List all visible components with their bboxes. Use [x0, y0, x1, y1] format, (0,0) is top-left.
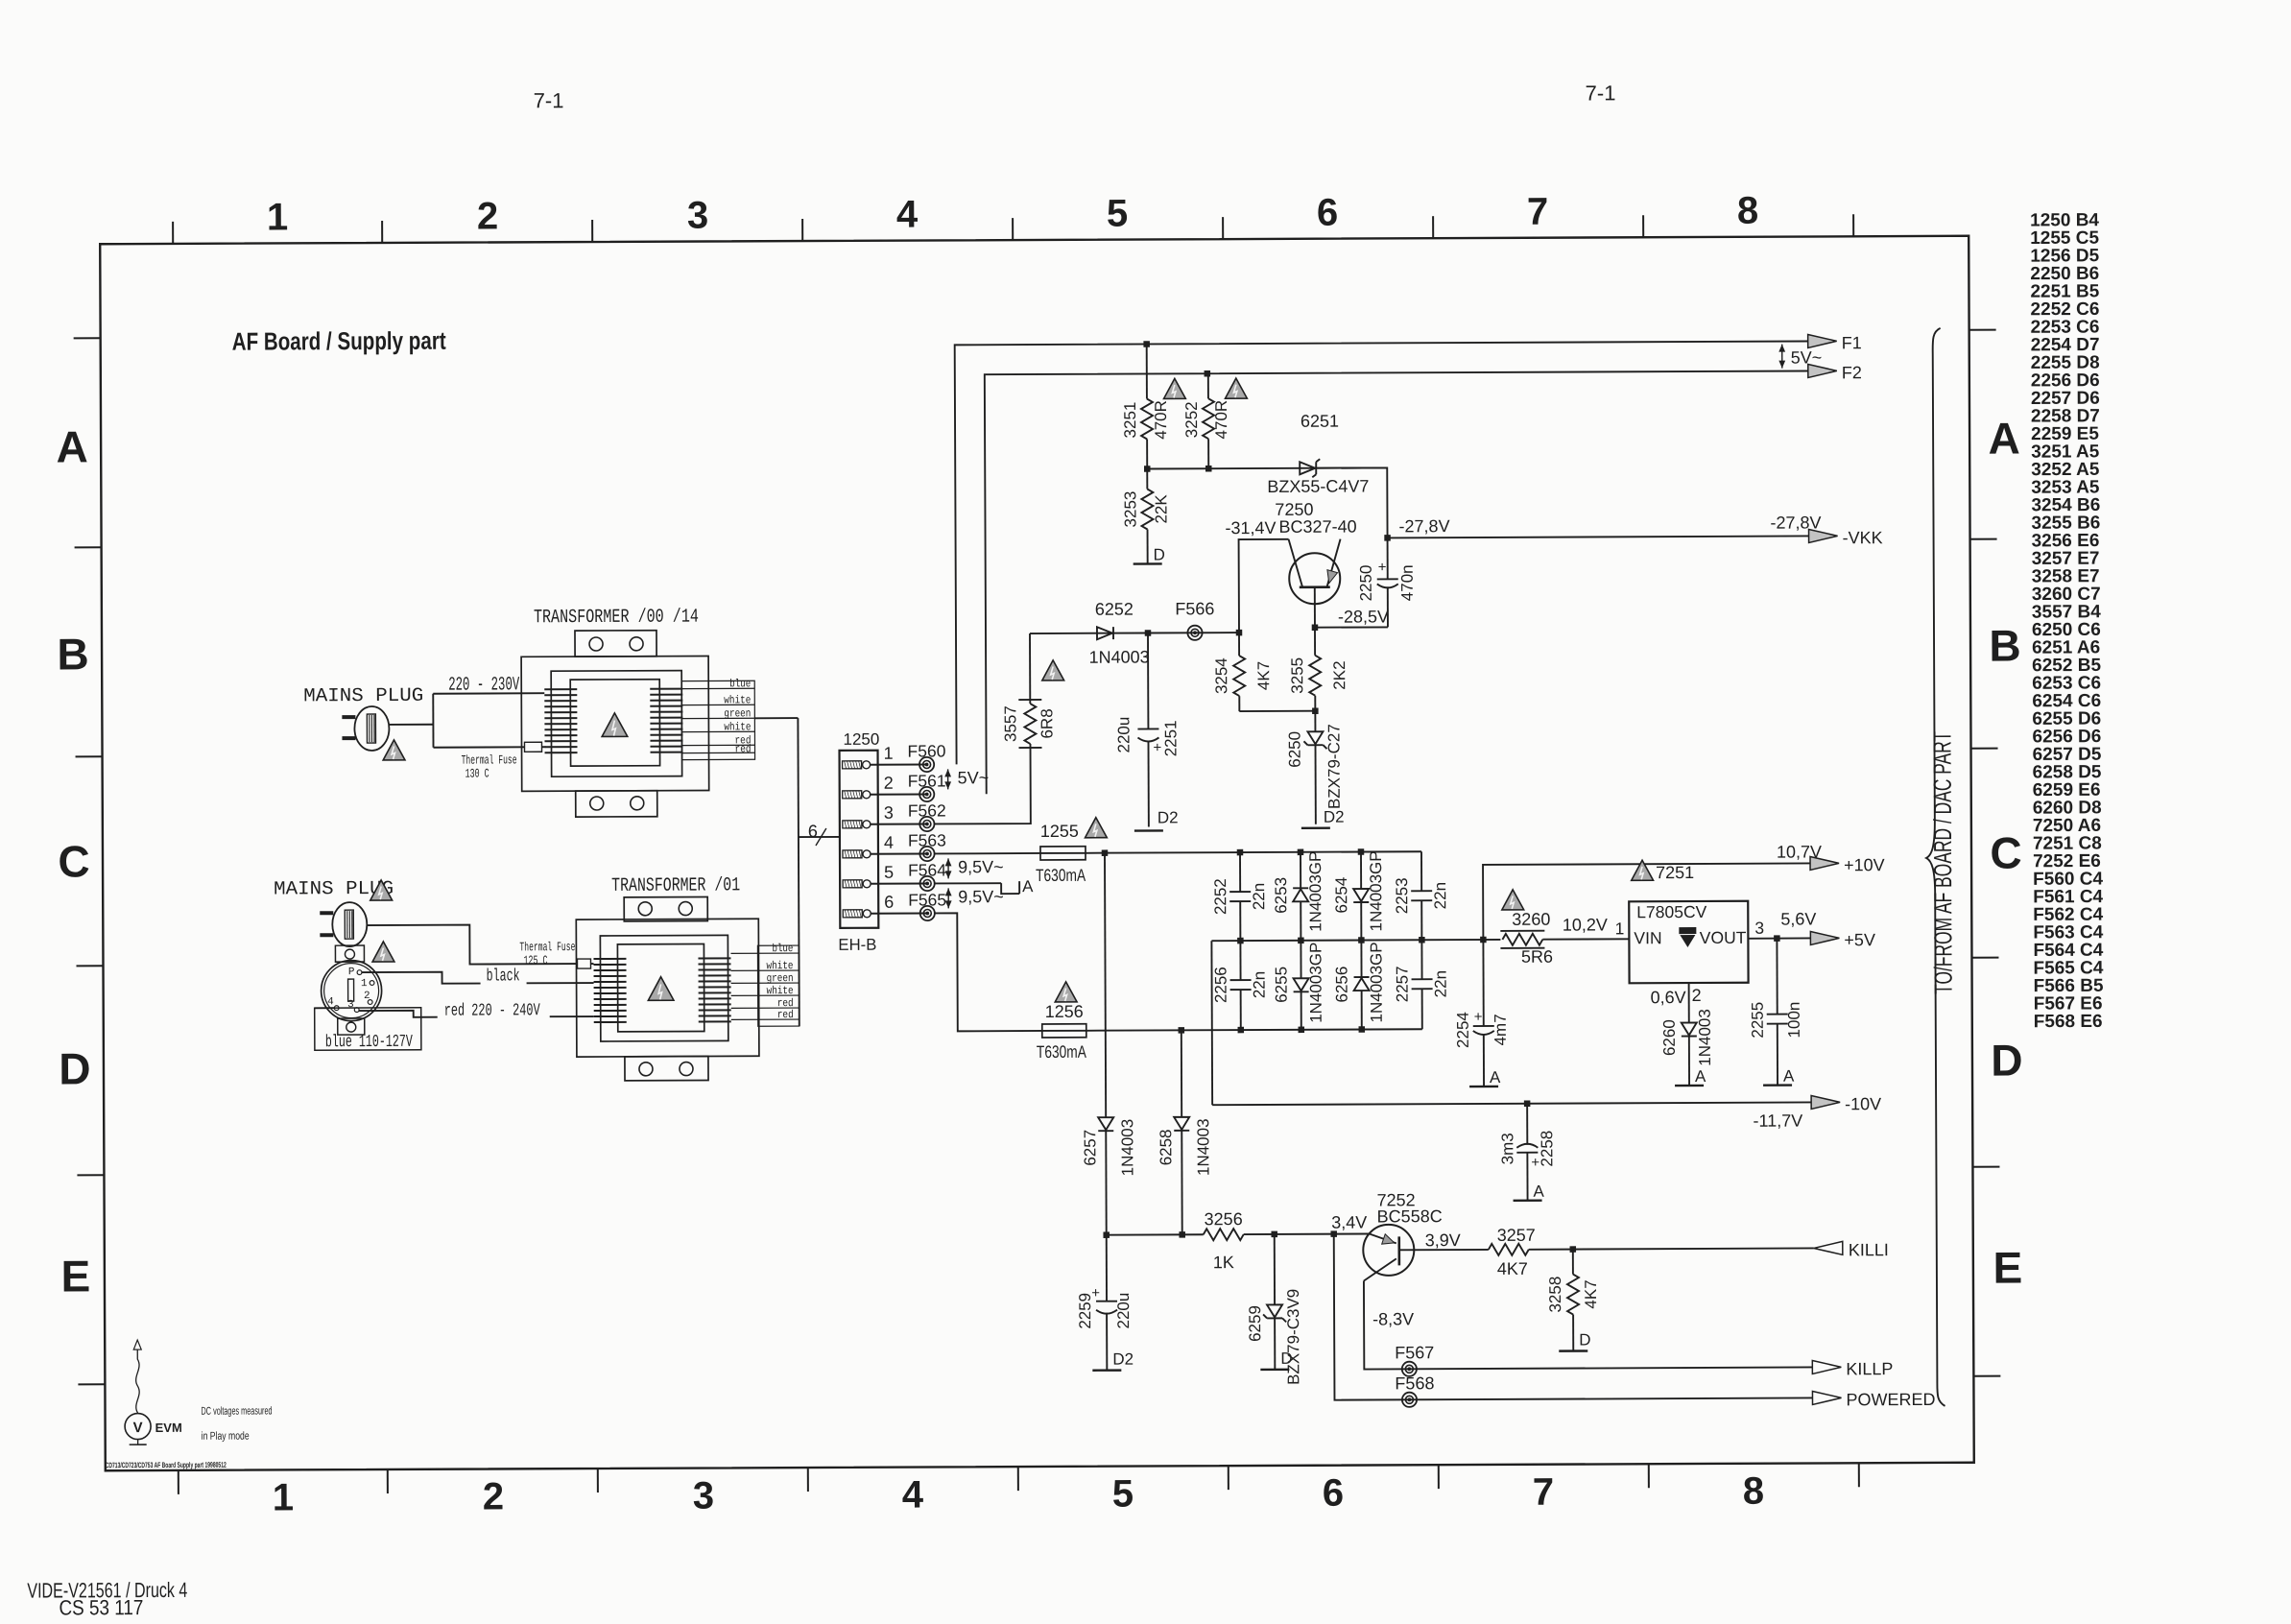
diode 6258 1N4003 — [1181, 1030, 1182, 1116]
left grid letters A-E — [56, 421, 91, 1301]
bottom grid ticks — [179, 1463, 1859, 1494]
svg-text:E: E — [1993, 1243, 2022, 1293]
svg-text:220 - 230V: 220 - 230V — [448, 674, 519, 696]
svg-text:POWERED: POWERED — [1846, 1390, 1935, 1409]
svg-text:3557: 3557 — [1001, 705, 1019, 742]
connector pin 2 — [843, 791, 862, 799]
svg-text:9,5V~: 9,5V~ — [958, 857, 1004, 876]
svg-text:6250: 6250 — [1285, 731, 1303, 768]
svg-text:F560: F560 — [907, 741, 945, 760]
svg-text:-27,8V: -27,8V — [1770, 513, 1821, 532]
connector pin 6 — [843, 910, 862, 918]
svg-text:2: 2 — [1692, 986, 1702, 1005]
diode 6260 1N4003 — [1688, 1013, 1690, 1022]
svg-text:2: 2 — [364, 991, 370, 1002]
-VKK rail wire -27,8V — [1388, 536, 1809, 537]
svg-text:3: 3 — [687, 194, 708, 236]
svg-text:1N4003GP: 1N4003GP — [1306, 851, 1324, 932]
svg-text:6258: 6258 — [1157, 1129, 1175, 1165]
svg-text:2258: 2258 — [1538, 1131, 1556, 1167]
svg-text:A: A — [1533, 1182, 1544, 1201]
EVM voltmeter symbol — [136, 1349, 140, 1413]
mains plug 1 wiring loop — [389, 724, 433, 726]
resistor 3251 470R — [1146, 344, 1148, 398]
warning triangle at 3557 — [1042, 660, 1064, 681]
transformer /01 primary winding hatch — [593, 959, 626, 1022]
svg-text:L7805CV: L7805CV — [1636, 902, 1706, 921]
svg-text:5: 5 — [884, 863, 894, 882]
9,5V~ span between pins 5-6 — [947, 888, 949, 908]
transformer /00 bottom mounting tab — [576, 791, 657, 817]
svg-text:22n: 22n — [1251, 971, 1269, 998]
svg-text:-VKK: -VKK — [1843, 528, 1883, 547]
thermal fuse 130C symbol — [524, 742, 541, 752]
svg-text:3252: 3252 — [1182, 401, 1201, 438]
svg-text:7: 7 — [1533, 1471, 1554, 1514]
secondary wires blue/white/green/white/red/red — [681, 687, 754, 689]
svg-text:220u: 220u — [1114, 717, 1133, 753]
ground D2 below 2251 — [1134, 829, 1163, 832]
svg-text:F565: F565 — [908, 890, 946, 909]
svg-text:22n: 22n — [1250, 883, 1268, 910]
svg-text:4K7: 4K7 — [1582, 1279, 1600, 1308]
svg-text:6251: 6251 — [1301, 412, 1339, 431]
wire selector pin 3 red 220 - 240V — [359, 1011, 438, 1017]
component grid reference list — [2030, 210, 2104, 1032]
svg-text:2: 2 — [477, 195, 498, 237]
transformer /00 primary winding hatch — [544, 689, 577, 752]
svg-text:AF Board / Supply part: AF Board / Supply part — [232, 326, 446, 356]
fuse 1255 T630mA — [1040, 847, 1086, 860]
transformer /01 bottom mounting tab — [625, 1056, 708, 1080]
warning triangle in transformer /01 — [648, 977, 674, 1001]
test point F561 — [919, 787, 934, 801]
svg-text:6R8: 6R8 — [1038, 708, 1056, 738]
transformer /00 secondary wire label box — [681, 681, 754, 759]
svg-text:white: white — [766, 960, 793, 972]
connector 1250 EH-B body — [840, 751, 879, 928]
ground A below 2258 — [1514, 1200, 1542, 1203]
svg-text:1: 1 — [361, 978, 368, 990]
test point F564 — [919, 876, 934, 891]
transformer /01 core — [617, 944, 704, 1032]
svg-text:1N4003GP: 1N4003GP — [1306, 943, 1324, 1023]
svg-text:3254: 3254 — [1212, 657, 1230, 694]
svg-text:F1: F1 — [1842, 333, 1862, 352]
svg-text:125 C: 125 C — [523, 953, 547, 967]
svg-text:2257: 2257 — [1394, 966, 1412, 1002]
svg-text:6253: 6253 — [1272, 877, 1290, 914]
test point F565 — [920, 906, 935, 920]
svg-text:-31,4V: -31,4V — [1225, 518, 1276, 537]
capacitor 2251 220u — [1147, 633, 1149, 728]
test point F568 — [1402, 1393, 1417, 1407]
diode 6256 1N4003GP — [1360, 941, 1362, 977]
svg-text:BC327-40: BC327-40 — [1278, 517, 1356, 537]
AC rail wire from fuse 1256 — [1086, 1029, 1422, 1031]
transformer /01 secondary winding hatch — [698, 958, 730, 1021]
svg-text:D2: D2 — [1112, 1350, 1134, 1369]
svg-text:1: 1 — [267, 196, 288, 238]
svg-text:DC voltages measured: DC voltages measured — [201, 1405, 272, 1417]
wire 3256 to 7252 base — [1244, 1232, 1370, 1235]
connector pin 1 — [843, 761, 862, 769]
svg-text:1N4003GP: 1N4003GP — [1367, 850, 1385, 931]
svg-text:MAINS PLUG: MAINS PLUG — [303, 685, 423, 708]
AC rail wire from fuse 1255 — [1086, 851, 1421, 853]
wire DC minus drop to -10V rail — [1210, 941, 1213, 1105]
svg-text:0,6V: 0,6V — [1651, 988, 1686, 1007]
resistor 3258 4K7 — [1572, 1250, 1574, 1275]
svg-text:130 C: 130 C — [465, 766, 489, 780]
svg-text:B: B — [1989, 621, 2020, 671]
svg-text:green: green — [767, 972, 794, 985]
ground A below 2255 — [1763, 1084, 1792, 1087]
resistor 3254 4K7 — [1238, 633, 1240, 656]
test point F560 — [919, 757, 934, 772]
blue 110-127V label box — [315, 1008, 421, 1050]
svg-text:4m7: 4m7 — [1492, 1014, 1510, 1045]
voltage selector rotary switch — [321, 960, 381, 1020]
svg-text:P: P — [348, 967, 355, 978]
svg-text:F568 E6: F568 E6 — [2034, 1012, 2103, 1032]
svg-text:green: green — [724, 707, 751, 720]
wire bus to connector 1250 — [799, 836, 840, 838]
warning triangle at 3252 — [1225, 378, 1247, 398]
svg-text:22n: 22n — [1432, 970, 1450, 997]
output arrow +10V — [1810, 856, 1839, 870]
-10V rail wire — [1212, 1102, 1811, 1105]
wire F2 net from connector pin 2 — [985, 370, 1810, 794]
svg-text:6260: 6260 — [1660, 1019, 1679, 1056]
selector pin 2 — [368, 1000, 372, 1005]
svg-text:B: B — [57, 629, 88, 679]
top grid ticks — [173, 214, 1853, 244]
svg-text:3257: 3257 — [1497, 1226, 1536, 1245]
svg-text:+: + — [1531, 1155, 1539, 1171]
output arrow KILLP — [1812, 1360, 1841, 1373]
diode 6254 1N4003GP — [1360, 852, 1362, 889]
svg-text:7-1: 7-1 — [534, 88, 564, 112]
svg-text:3255: 3255 — [1288, 657, 1306, 694]
top grid numbers 1-8 — [267, 190, 1758, 239]
svg-text:7251: 7251 — [1656, 863, 1694, 882]
fusible resistor 3260 5R6 — [1502, 934, 1542, 945]
test point F566 — [1187, 626, 1202, 640]
transformer /00 core — [570, 680, 659, 766]
svg-text:6254: 6254 — [1332, 877, 1350, 914]
output arrow F2 — [1808, 364, 1837, 377]
svg-text:1N4003: 1N4003 — [1118, 1119, 1136, 1177]
wire pin 6 to fuse 1256 — [935, 913, 1042, 1031]
svg-text:red 220 - 240V: red 220 - 240V — [444, 1001, 540, 1020]
right grid letters A-E — [1988, 414, 2023, 1293]
svg-text:T630mA: T630mA — [1036, 866, 1086, 885]
svg-text:+: + — [1474, 1009, 1483, 1025]
svg-text:D: D — [1280, 1349, 1292, 1368]
svg-text:470n: 470n — [1398, 564, 1417, 601]
svg-text:6: 6 — [884, 893, 894, 912]
svg-text:5: 5 — [1107, 193, 1128, 235]
svg-text:2: 2 — [483, 1475, 504, 1517]
svg-text:1K: 1K — [1213, 1253, 1234, 1272]
svg-text:6256: 6256 — [1333, 967, 1351, 1003]
ground D below 3253 — [1147, 548, 1149, 563]
resistor 3253 22K — [1146, 468, 1148, 489]
svg-text:BC558C: BC558C — [1377, 1206, 1443, 1226]
svg-text:-28,5V: -28,5V — [1338, 607, 1389, 626]
node junction F2/3252 — [1205, 370, 1211, 377]
svg-text:2252: 2252 — [1211, 878, 1229, 915]
thermal fuse 125C symbol — [577, 959, 590, 968]
selector pin P — [357, 970, 362, 975]
svg-text:+5V: +5V — [1844, 930, 1875, 949]
zener diode 6250 BZX79-C27 — [1314, 711, 1316, 732]
svg-text:4: 4 — [884, 833, 894, 852]
svg-text:Thermal Fuse: Thermal Fuse — [462, 752, 517, 767]
svg-text:1250: 1250 — [843, 730, 879, 749]
fuse 1256 T630mA — [1042, 1024, 1086, 1038]
svg-text:-27,8V: -27,8V — [1398, 516, 1449, 536]
warning triangle at mains plug 1 — [383, 740, 405, 760]
svg-text:F568: F568 — [1395, 1373, 1434, 1393]
test point F562 — [919, 817, 934, 831]
mains plug 2 wire to transformer /01 — [367, 924, 577, 965]
wire 3254/3255 bottoms — [1239, 710, 1315, 712]
ground A below 6260 — [1675, 1085, 1704, 1087]
svg-text:10,2V: 10,2V — [1563, 915, 1608, 934]
svg-text:1: 1 — [273, 1476, 294, 1518]
diode 6252 1N4003 — [1097, 627, 1112, 639]
node emitter 7250 -28,5V — [1312, 624, 1319, 631]
input arrow KILLI — [1814, 1241, 1843, 1254]
output arrow -VKK — [1809, 529, 1838, 542]
svg-text:D2: D2 — [1157, 808, 1179, 826]
svg-text:7: 7 — [1527, 191, 1548, 233]
svg-text:4: 4 — [327, 996, 334, 1008]
svg-text:A: A — [1695, 1067, 1706, 1086]
svg-text:black: black — [487, 967, 520, 986]
svg-text:4: 4 — [902, 1474, 924, 1517]
transformer /01 inner frame — [600, 935, 728, 1041]
svg-text:blue: blue — [729, 678, 751, 690]
resistor 3257 4K7 — [1489, 1244, 1529, 1255]
svg-text:TRANSFORMER /00 /14: TRANSFORMER /00 /14 — [534, 607, 699, 630]
connector pin 3 — [843, 821, 862, 828]
sheet border frame — [100, 236, 1974, 1470]
mains plug 2 symbol — [332, 902, 367, 946]
svg-text:3: 3 — [347, 999, 354, 1011]
svg-text:F561: F561 — [908, 771, 946, 790]
zener diode 6259 BZX79-C3V9 — [1274, 1234, 1276, 1304]
emitter wire 7252 3,9V — [1399, 1249, 1489, 1251]
svg-text:F566: F566 — [1175, 599, 1214, 618]
svg-text:3251: 3251 — [1121, 402, 1139, 439]
svg-text:Thermal Fuse: Thermal Fuse — [519, 940, 575, 954]
svg-text:4K7: 4K7 — [1254, 661, 1273, 690]
svg-text:8: 8 — [1737, 190, 1758, 232]
svg-text:A: A — [1490, 1068, 1501, 1087]
svg-text:9,5V~: 9,5V~ — [958, 887, 1004, 906]
test point F567 — [1402, 1362, 1417, 1376]
warning triangle at fuse 1256 — [1055, 982, 1077, 1002]
svg-text:4: 4 — [896, 194, 919, 236]
capacitor 2257 22n — [1420, 940, 1422, 979]
wire 3257 to KILLI — [1529, 1248, 1814, 1249]
svg-text:1: 1 — [1615, 919, 1625, 938]
svg-text:in Play mode: in Play mode — [202, 1431, 250, 1443]
svg-text:3,9V: 3,9V — [1425, 1230, 1461, 1250]
svg-text:F2: F2 — [1842, 363, 1862, 382]
svg-text:A: A — [1783, 1067, 1795, 1086]
resistor 3557 6R8 fusible — [934, 744, 1030, 824]
svg-text:+10V: +10V — [1844, 855, 1885, 874]
svg-text:6: 6 — [1323, 1472, 1344, 1515]
transformer /00 outer frame — [521, 656, 709, 791]
svg-text:2K2: 2K2 — [1330, 660, 1348, 689]
svg-text:3: 3 — [884, 803, 894, 823]
output arrow POWERED — [1812, 1391, 1841, 1404]
svg-text:TRANSFORMER /01: TRANSFORMER /01 — [611, 874, 740, 897]
wire node to 3256 — [1107, 1233, 1204, 1235]
svg-text:D: D — [59, 1043, 90, 1093]
9,5V~ span between pins 4-5 — [947, 858, 949, 878]
svg-text:T630mA: T630mA — [1037, 1042, 1086, 1062]
collector wire 7252 to KILLP — [1364, 1278, 1812, 1369]
ground A below 2254 — [1469, 1086, 1498, 1088]
capacitor 2253 22n — [1420, 851, 1422, 891]
svg-text:EVM: EVM — [155, 1421, 182, 1435]
voltage selector bottom tab — [338, 1018, 365, 1035]
brace bracket to DAC part — [1924, 328, 1945, 1406]
wire 3251/3252 to 6251 — [1147, 467, 1387, 468]
wire POWERED from 3,4V node — [1334, 1231, 1813, 1399]
svg-text:5R6: 5R6 — [1521, 947, 1553, 967]
svg-text:22K: 22K — [1152, 494, 1170, 524]
svg-text:470R: 470R — [1152, 400, 1170, 440]
svg-text:2253: 2253 — [1393, 877, 1411, 914]
svg-text:D2: D2 — [1324, 808, 1345, 826]
svg-text:5: 5 — [1112, 1473, 1134, 1516]
svg-text:1255: 1255 — [1040, 822, 1079, 841]
test point F563 — [919, 847, 934, 861]
svg-text:white: white — [724, 694, 751, 706]
svg-text:D: D — [1579, 1330, 1590, 1349]
svg-text:F563: F563 — [908, 830, 946, 849]
voltage regulator 7251 L7805CV — [1629, 901, 1748, 984]
svg-text:blue: blue — [772, 943, 793, 955]
wire pin 5 to ground net A — [935, 882, 1001, 884]
svg-text:E: E — [60, 1251, 90, 1301]
wire secondary bus /00 to connector — [754, 717, 798, 719]
wire 6252 node to F566 and 7250 base leg — [1030, 632, 1148, 634]
svg-text:-11,7V: -11,7V — [1753, 1111, 1802, 1131]
svg-text:V: V — [133, 1420, 143, 1436]
warning triangle in transformer /00 — [602, 713, 628, 737]
capacitor 2250 470n — [1387, 537, 1389, 579]
resistor 3252 470R — [1207, 373, 1209, 398]
svg-text:KILLI: KILLI — [1849, 1240, 1889, 1259]
svg-text:A: A — [1022, 877, 1034, 896]
resistor 3255 2K2 — [1314, 628, 1316, 656]
ground D below 3258 — [1559, 1349, 1587, 1352]
svg-text:5V~: 5V~ — [958, 768, 990, 787]
svg-text:5V~: 5V~ — [1791, 347, 1823, 367]
wire selector pin 4 to box — [315, 1007, 335, 1009]
wire F1 net from connector pin 1 — [955, 341, 1810, 764]
svg-text:6259: 6259 — [1246, 1305, 1264, 1342]
svg-text:+: + — [1378, 559, 1387, 575]
svg-text:C: C — [58, 836, 89, 886]
voltage selector top tab — [335, 945, 364, 962]
output arrow F1 — [1808, 334, 1837, 347]
warning triangle at voltage selector — [372, 942, 394, 962]
svg-text:6: 6 — [808, 822, 818, 841]
node junction F1/3251 — [1143, 341, 1150, 347]
svg-text:TO/FROM AF BOARD / DAC PART: TO/FROM AF BOARD / DAC PART — [1927, 731, 1957, 994]
left grid ticks — [74, 338, 106, 1384]
+10V rail wire — [1483, 863, 1810, 939]
svg-text:2: 2 — [884, 774, 894, 793]
regulator ground pin 2 wire — [1688, 983, 1690, 1013]
svg-text:1N4003GP: 1N4003GP — [1367, 942, 1385, 1022]
mains plug 1 symbol — [354, 706, 389, 751]
svg-text:VOUT: VOUT — [1700, 928, 1747, 947]
bottom grid numbers 1-8 — [273, 1470, 1764, 1519]
svg-text:6: 6 — [1317, 192, 1338, 234]
wire selector pin P black — [362, 972, 481, 985]
svg-text:BZX55-C4V7: BZX55-C4V7 — [1267, 476, 1369, 495]
ground D below 6259 — [1260, 1369, 1289, 1372]
capacitor 2254 4m7 — [1482, 940, 1484, 1026]
right grid ticks — [1969, 330, 2001, 1376]
svg-text:VIN: VIN — [1634, 928, 1661, 947]
capacitor 2255 100n — [1776, 939, 1778, 1015]
svg-text:KILLP: KILLP — [1846, 1359, 1893, 1378]
svg-text:red: red — [777, 1009, 794, 1021]
svg-text:2255: 2255 — [1749, 1002, 1767, 1039]
wire base of 7250 to -31,4V node — [1239, 539, 1289, 633]
svg-text:220u: 220u — [1114, 1293, 1133, 1329]
svg-text:3m3: 3m3 — [1498, 1133, 1516, 1164]
svg-text:100n: 100n — [1785, 1002, 1803, 1039]
capacitor 2256 22n — [1239, 941, 1241, 980]
transformer /01 secondary wire label box — [757, 945, 799, 1026]
5V~ span arrow at F1/F2 — [1781, 345, 1783, 369]
svg-text:CD713/CD723/CD753 AF Board Sup: CD713/CD723/CD753 AF Board Supply part 1… — [106, 1461, 227, 1470]
svg-text:red: red — [734, 743, 751, 755]
svg-text:-8,3V: -8,3V — [1372, 1309, 1414, 1328]
svg-text:22n: 22n — [1431, 882, 1449, 909]
transformer /00 secondary winding hatch — [650, 689, 682, 752]
DC mid bus wire to regulator — [1211, 940, 1500, 941]
svg-text:white: white — [767, 985, 794, 997]
svg-text:1N4003: 1N4003 — [1194, 1118, 1212, 1176]
svg-text:D: D — [1154, 545, 1165, 563]
capacitor 2259 220u — [1106, 1235, 1108, 1302]
svg-text:A: A — [1988, 414, 2019, 464]
svg-text:4K7: 4K7 — [1497, 1259, 1528, 1278]
svg-text:2256: 2256 — [1212, 967, 1230, 1003]
svg-text:3256: 3256 — [1205, 1209, 1243, 1229]
svg-text:3258: 3258 — [1546, 1277, 1564, 1313]
diode 6253 1N4003GP — [1300, 852, 1301, 888]
connector pin 5 — [843, 880, 862, 888]
svg-text:3: 3 — [1754, 919, 1764, 938]
svg-text:F567: F567 — [1395, 1343, 1434, 1362]
resistor 3256 1K — [1204, 1229, 1244, 1240]
svg-text:F562: F562 — [908, 800, 946, 820]
